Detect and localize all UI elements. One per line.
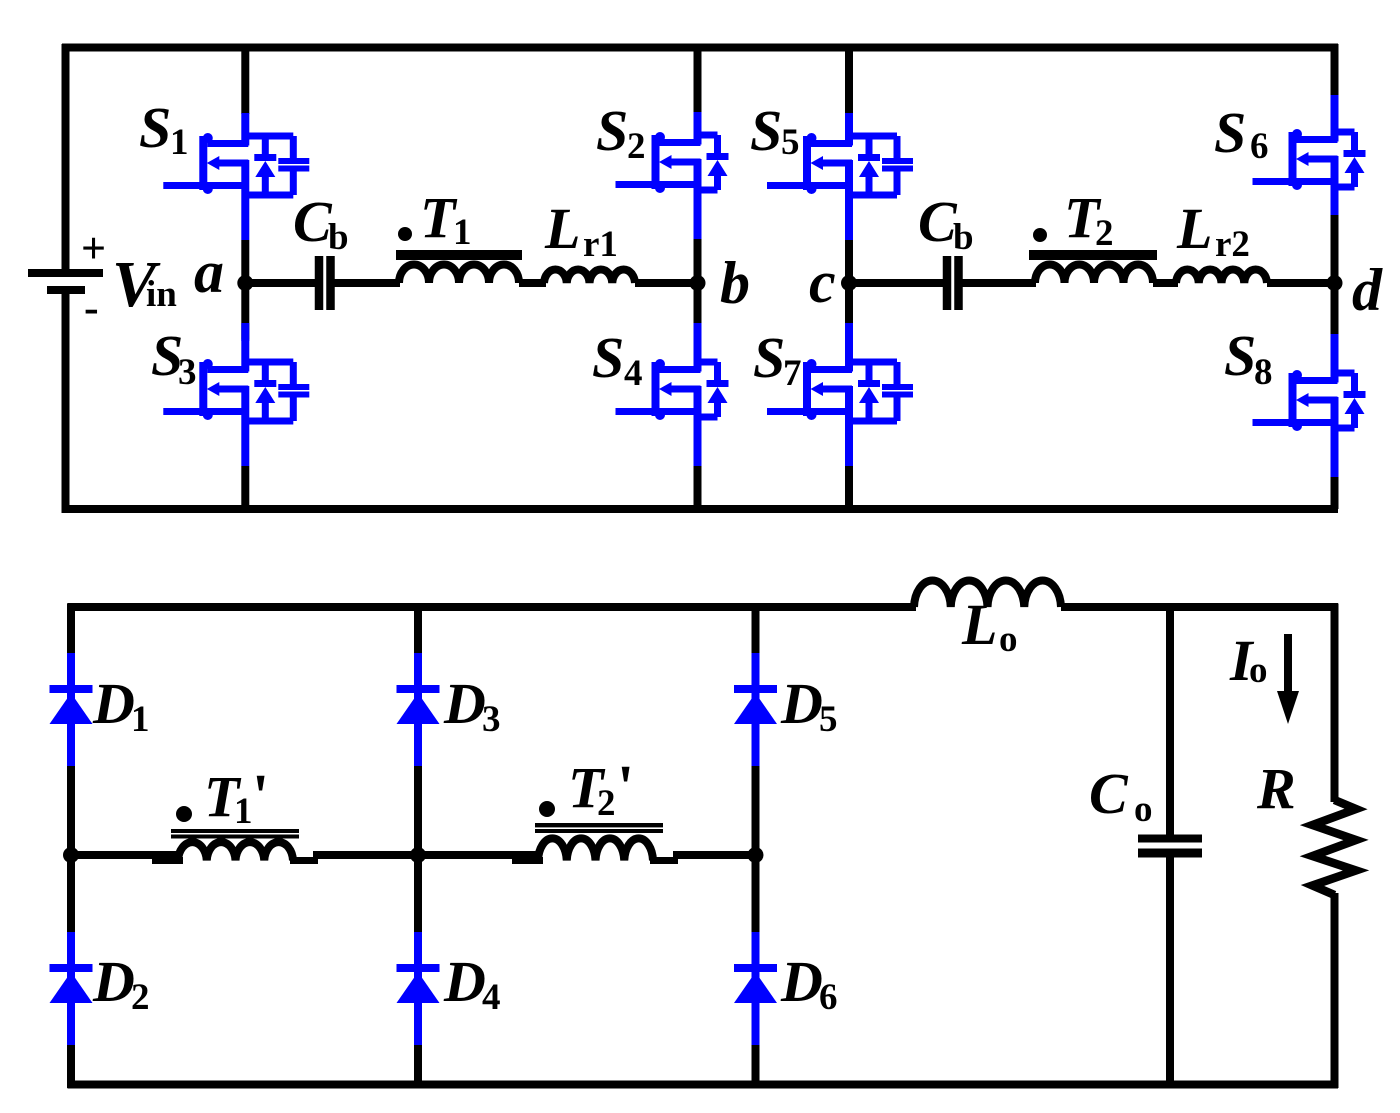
wire: S4 source to bottom rail xyxy=(694,466,702,509)
wire: left leg lower (battery to bottom rail) xyxy=(62,294,70,513)
wire: midline left to T1' xyxy=(71,851,177,859)
wire: Co leg upper xyxy=(1166,604,1174,837)
svg-text:8: 8 xyxy=(1254,352,1273,393)
diode D4 xyxy=(397,949,501,1018)
diode D3 xyxy=(397,671,501,740)
node b xyxy=(690,250,751,316)
node c xyxy=(809,249,857,315)
wire: S3 drain blue extension xyxy=(241,323,249,341)
svg-text:r1: r1 xyxy=(583,224,618,265)
wire: load leg lower xyxy=(1331,893,1339,1088)
wire: D4 blue lead xyxy=(414,932,422,1047)
wire: D5 blue lead xyxy=(752,653,760,768)
wire: T2' to right leg xyxy=(673,851,756,859)
wire: middle leg to T2' xyxy=(418,851,537,859)
svg-text:2: 2 xyxy=(627,126,646,167)
wire: middle leg middle black xyxy=(414,766,422,934)
transformer T1' secondary xyxy=(152,763,318,861)
transistor S5 xyxy=(750,98,913,240)
svg-text:S: S xyxy=(139,95,171,160)
wire: bottom-section bottom rail xyxy=(68,1081,1339,1089)
wire: right leg bottom black xyxy=(752,1045,760,1088)
wire: left leg middle black xyxy=(67,766,75,934)
svg-text:6: 6 xyxy=(1250,126,1269,167)
wire: D3 blue lead xyxy=(414,653,422,768)
capacitor Co xyxy=(1089,761,1202,853)
wire: S8 drain blue extension xyxy=(1331,334,1339,352)
svg-text:C: C xyxy=(1089,761,1129,826)
svg-text:3: 3 xyxy=(178,352,197,393)
diode D6 xyxy=(734,949,838,1018)
svg-text:b: b xyxy=(720,250,750,316)
transistor S4 xyxy=(592,325,729,466)
wire: left leg bottom black xyxy=(67,1045,75,1088)
transistor S1 xyxy=(139,95,309,240)
wire: D2 blue lead xyxy=(67,932,75,1047)
wire: Lr2 to node d xyxy=(1267,279,1335,287)
svg-text:D: D xyxy=(780,671,823,736)
wire: bottom rail xyxy=(62,505,1338,513)
svg-text:7: 7 xyxy=(783,353,802,394)
wire: left rectifier leg top black xyxy=(67,604,75,656)
svg-text:o: o xyxy=(1249,650,1268,691)
node: midline middle junction xyxy=(410,847,426,863)
svg-text:o: o xyxy=(1134,789,1153,830)
wire: S8 source to bottom rail xyxy=(1331,477,1339,509)
svg-text:2: 2 xyxy=(131,977,150,1018)
wire: S7 source to bottom rail xyxy=(845,466,853,509)
wire: S4 drain blue extension xyxy=(694,323,702,341)
svg-text:S: S xyxy=(1224,323,1256,388)
svg-text:+: + xyxy=(81,224,106,273)
svg-text:S: S xyxy=(753,325,785,390)
svg-text:L: L xyxy=(961,592,997,657)
wire: left leg upper (to battery) xyxy=(62,44,70,269)
svg-text:in: in xyxy=(146,274,177,315)
wire: D6 blue lead xyxy=(752,932,760,1047)
svg-text:2: 2 xyxy=(597,783,616,824)
transistor S3 xyxy=(151,323,309,466)
wire: leg S1/S3 upper black xyxy=(241,44,249,114)
svg-text:-: - xyxy=(84,283,99,332)
wire: node c to Cb2 xyxy=(849,279,943,287)
svg-text:C: C xyxy=(293,189,333,254)
capacitor Cb (leg c-d) xyxy=(918,189,974,310)
current Io label and arrow xyxy=(1229,628,1299,724)
svg-text:5: 5 xyxy=(819,699,838,740)
svg-text:d: d xyxy=(1352,257,1383,323)
wire: leg S2/S4 upper black xyxy=(694,44,702,113)
svg-text:': ' xyxy=(252,763,269,831)
svg-text:1: 1 xyxy=(234,791,253,832)
wire: S3 source to bottom rail xyxy=(241,466,249,509)
wire: S1 source to node a xyxy=(241,240,249,287)
wire: right rectifier leg top black xyxy=(752,604,760,656)
wire: middle rectifier leg top black xyxy=(414,604,422,656)
wire: D1 blue lead xyxy=(67,653,75,768)
svg-text:5: 5 xyxy=(781,122,800,163)
node: midline right junction xyxy=(748,847,764,863)
svg-text:4: 4 xyxy=(624,353,643,394)
svg-text:D: D xyxy=(443,949,486,1014)
wire: right leg upper black xyxy=(1331,44,1339,110)
battery Vin xyxy=(28,224,177,332)
wire: T1' to middle leg xyxy=(313,851,418,859)
inductor Lr1 xyxy=(544,196,635,283)
node: midline left junction xyxy=(63,847,79,863)
svg-text:c: c xyxy=(809,249,836,315)
wire: S6 source to node d to S8 xyxy=(1331,215,1339,351)
wire: Cb2 to T2 xyxy=(963,279,1037,287)
wire: node a to S3 xyxy=(241,283,249,339)
diode D1 xyxy=(50,671,150,740)
svg-text:3: 3 xyxy=(482,699,501,740)
transistor S7 xyxy=(753,325,913,466)
svg-text:1: 1 xyxy=(453,212,472,253)
svg-text:D: D xyxy=(92,671,135,736)
transformer T1 primary xyxy=(396,185,522,283)
wire: bottom-section top rail left of Lo xyxy=(68,603,917,611)
svg-text:a: a xyxy=(194,239,224,305)
node d xyxy=(1327,257,1384,323)
wire: Lr1 to node b xyxy=(635,279,698,287)
svg-text:S: S xyxy=(592,325,624,390)
transistor S6 xyxy=(1214,100,1366,236)
svg-text:S: S xyxy=(596,98,628,163)
svg-text:1: 1 xyxy=(170,122,189,163)
wire: node a to Cb xyxy=(245,279,315,287)
svg-text:D: D xyxy=(443,671,486,736)
wire: bottom-section top rail right of Lo xyxy=(1061,603,1338,611)
wire: leg S5/S7 upper black xyxy=(845,44,853,114)
svg-text:L: L xyxy=(544,196,580,261)
svg-text:6: 6 xyxy=(819,977,838,1018)
inductor Lo xyxy=(914,580,1061,660)
wire: S5 source to node c to S7 xyxy=(845,240,853,339)
wire: S6 drain blue extension xyxy=(1331,95,1339,111)
wire: S7 drain blue extension xyxy=(845,323,853,341)
svg-text:': ' xyxy=(617,754,634,822)
wire: T2 to Lr2 xyxy=(1153,279,1178,287)
wire: Cb to T1 xyxy=(335,279,401,287)
wire: middle leg bottom black xyxy=(414,1045,422,1088)
resistor R xyxy=(1256,756,1356,895)
svg-text:b: b xyxy=(953,217,974,258)
svg-text:S: S xyxy=(750,98,782,163)
diode D2 xyxy=(50,949,150,1018)
transformer T2 primary xyxy=(1029,185,1157,283)
wire: T1 to Lr1 xyxy=(519,279,546,287)
node a xyxy=(194,239,253,305)
transistor S8 xyxy=(1224,323,1366,477)
transformer T2' secondary xyxy=(512,754,678,861)
capacitor Cb (leg a-b) xyxy=(293,189,349,310)
svg-text:b: b xyxy=(328,217,349,258)
svg-text:1: 1 xyxy=(131,699,150,740)
inductor Lr2 xyxy=(1176,196,1267,283)
wire: S2 source to node b to S4 xyxy=(694,239,702,339)
svg-text:R: R xyxy=(1256,756,1296,821)
svg-text:4: 4 xyxy=(482,977,501,1018)
svg-text:L: L xyxy=(1176,196,1212,261)
svg-text:S: S xyxy=(1214,100,1246,165)
wire: right leg middle black xyxy=(752,766,760,934)
wire: top rail xyxy=(62,44,1338,52)
wire: load leg upper xyxy=(1331,604,1339,803)
svg-text:2: 2 xyxy=(1095,213,1114,254)
svg-text:o: o xyxy=(999,619,1018,660)
svg-text:D: D xyxy=(780,949,823,1014)
diode D5 xyxy=(734,671,838,740)
svg-text:D: D xyxy=(92,949,135,1014)
svg-text:C: C xyxy=(918,189,958,254)
wire: Co leg lower xyxy=(1166,855,1174,1088)
svg-text:r2: r2 xyxy=(1215,224,1250,265)
transistor S2 xyxy=(596,98,729,239)
